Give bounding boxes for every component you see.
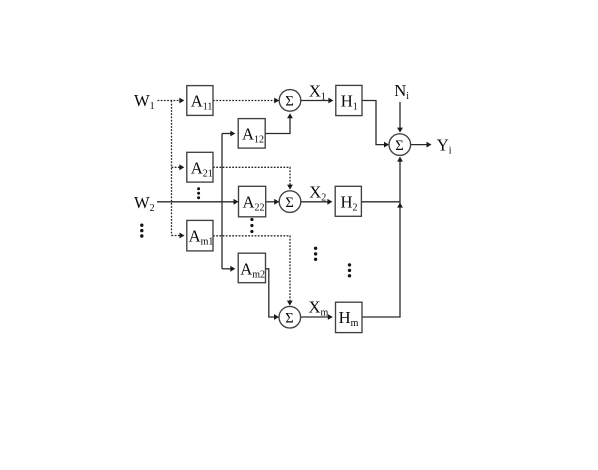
summer S3 — [279, 306, 301, 328]
arrowhead into S2 left — [274, 199, 279, 205]
wire W2 solid input — [157, 201, 236, 203]
svg-text:Σ: Σ — [285, 310, 293, 326]
svg-text:Xm: Xm — [309, 298, 329, 319]
dots below A21 — [197, 187, 200, 190]
summer S2 — [279, 191, 301, 213]
block Am1 — [187, 220, 213, 251]
summer S1 — [279, 90, 301, 112]
dots middle column H — [348, 263, 351, 266]
svg-text:Ni: Ni — [394, 81, 409, 102]
wire dashed into A21 — [172, 166, 181, 168]
wire H2 to right vertical — [361, 201, 400, 203]
svg-text:W1: W1 — [134, 91, 155, 112]
svg-text:X2: X2 — [309, 183, 326, 204]
wire W1 dashed input — [158, 100, 181, 102]
wire Am2 to sum3 — [266, 269, 277, 317]
arrowhead into A11 — [179, 98, 184, 104]
arrowhead into S4 left — [384, 142, 389, 148]
arrowhead into S3 top — [287, 301, 293, 306]
wire A11 to sum1 dashed — [213, 100, 277, 102]
block Hm — [336, 302, 363, 332]
dots below A22 — [250, 218, 253, 221]
wire into Am2 — [222, 268, 231, 270]
arrowhead into S2 top — [287, 185, 293, 190]
wire A12 to sum1 bottom — [265, 118, 290, 134]
arrowhead junction H2 up — [397, 203, 403, 208]
arrowhead into Hm — [328, 314, 333, 320]
wire sum2 to H2 — [301, 201, 328, 203]
wire sum1 to H1 — [301, 100, 329, 102]
wire A22 to sum2 — [266, 201, 277, 203]
wire Am1 to sum3 dashed — [213, 236, 290, 304]
arrowhead into H2 — [327, 199, 332, 205]
wire into A12 — [222, 133, 231, 135]
wire dashed branch vertical from W1 — [171, 101, 173, 236]
svg-text:W2: W2 — [134, 193, 155, 214]
arrowhead output Yi — [427, 142, 432, 148]
svg-text:Σ: Σ — [285, 195, 293, 211]
block Am2 — [238, 253, 265, 283]
wire big sum output — [410, 144, 429, 146]
wire solid branch vertical from W2 — [221, 134, 223, 269]
wire dashed into Am1 — [172, 235, 181, 237]
block A11 — [187, 86, 213, 116]
svg-text:Yi: Yi — [437, 135, 452, 156]
svg-text:X1: X1 — [309, 82, 326, 103]
arrowhead into Am1 — [180, 233, 185, 239]
dots below W2 — [140, 224, 143, 227]
arrowhead into A22 — [234, 199, 239, 205]
wire Ni input — [399, 102, 401, 128]
arrowhead into S3 left — [274, 314, 279, 320]
wire A21 to sum2 dashed — [213, 167, 290, 188]
arrowhead into A21 — [179, 164, 184, 170]
arrowhead into S1 left — [274, 98, 279, 104]
arrowhead into H1 — [328, 98, 333, 104]
arrowhead into S4 bottom — [397, 157, 403, 162]
block A12 — [238, 119, 265, 149]
arrowhead into S4 top from Ni — [397, 128, 403, 133]
arrowhead into Am2 — [230, 266, 235, 272]
wire Hm up right vertical to big sum — [362, 158, 400, 318]
dots middle column X — [314, 247, 317, 250]
svg-text:Σ: Σ — [395, 138, 403, 154]
svg-text:Σ: Σ — [285, 94, 293, 110]
summer S4 output — [389, 134, 411, 156]
block H1 — [336, 85, 362, 115]
block A21 — [187, 152, 213, 182]
wire H1 to big sum — [362, 101, 387, 145]
block H2 — [335, 186, 361, 216]
block A22 — [239, 186, 266, 217]
wire sum3 to Hm — [300, 316, 328, 318]
arrowhead into S1 bottom — [287, 113, 293, 118]
arrowhead into A12 — [230, 131, 235, 137]
